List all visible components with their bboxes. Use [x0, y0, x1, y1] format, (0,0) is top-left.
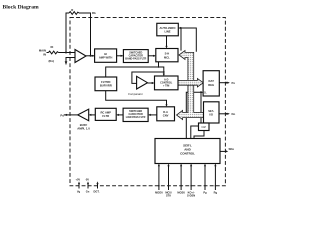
svg-text:-5V: -5V: [85, 178, 89, 182]
svg-text:Gn: Gn: [86, 190, 90, 194]
svg-text:LINE: LINE: [164, 29, 170, 33]
svg-text:+5V: +5V: [75, 178, 80, 182]
svg-text:SE'L: SE'L: [208, 109, 214, 113]
svg-text:LOW-PASS FLTR: LOW-PASS FLTR: [126, 116, 146, 119]
svg-text:HI: HI: [104, 52, 107, 56]
svg-text:I/O: I/O: [209, 113, 213, 117]
svg-text:AMPL 1.0: AMPL 1.0: [77, 126, 90, 130]
svg-text:Rg: Rg: [214, 191, 218, 195]
svg-text:AMP WITH: AMP WITH: [99, 56, 113, 60]
svg-text:BAND-PASS FLTR: BAND-PASS FLTR: [125, 58, 146, 61]
svg-text:DGT.: DGT.: [94, 190, 100, 194]
svg-text:Vg: Vg: [77, 190, 81, 194]
svg-text:FLTR: FLTR: [102, 114, 109, 118]
svg-text:CONTROL: CONTROL: [180, 152, 195, 156]
svg-text:REG: REG: [208, 83, 214, 87]
svg-text:SL: SL: [204, 92, 208, 95]
svg-text:R: R: [71, 8, 73, 12]
svg-text:FLT'RD: FLT'RD: [101, 80, 110, 84]
svg-text:D-A: D-A: [163, 110, 168, 114]
svg-text:STA: STA: [166, 193, 171, 197]
svg-text:+ TIM: + TIM: [163, 84, 169, 87]
svg-text:MCL: MCL: [164, 55, 170, 59]
svg-text:MOS0: MOS0: [177, 191, 185, 195]
svg-text:RC AMP: RC AMP: [100, 111, 111, 115]
svg-text:Po: Po: [232, 81, 236, 85]
svg-text:(Ro): (Ro): [49, 59, 55, 63]
svg-text:Pd: Pd: [60, 113, 64, 117]
svg-text:S-DSN: S-DSN: [187, 193, 195, 197]
svg-text:SDo: SDo: [229, 147, 235, 151]
svg-text:Rb: Rb: [92, 11, 96, 15]
svg-text:DAT: DAT: [209, 79, 215, 83]
svg-text:Do: Do: [232, 112, 236, 116]
svg-text:CAP: CAP: [201, 126, 206, 129]
svg-text:S-H: S-H: [165, 52, 170, 56]
svg-text:IN: IN: [43, 52, 46, 56]
svg-text:Block Diagram: Block Diagram: [3, 5, 40, 11]
svg-text:AUTO-ZERO: AUTO-ZERO: [160, 26, 176, 30]
svg-text:Comparator: Comparator: [128, 92, 144, 96]
svg-text:BUF/VRR: BUF/VRR: [100, 84, 112, 88]
svg-text:MOD0: MOD0: [155, 191, 163, 195]
svg-text:CNV: CNV: [163, 114, 169, 118]
svg-text:Pg: Pg: [203, 191, 207, 195]
svg-text:Ri: Ri: [51, 45, 54, 49]
